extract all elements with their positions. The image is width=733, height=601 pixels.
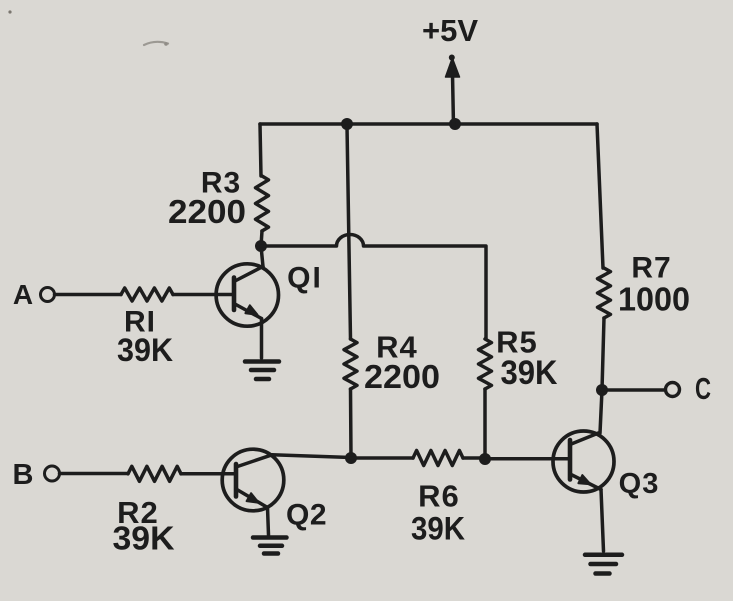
resistor R2	[128, 466, 181, 481]
wire rail to R7	[597, 124, 603, 268]
Q3 label	[619, 468, 660, 500]
terminal B	[13, 459, 60, 491]
ground Q1	[245, 362, 279, 380]
wire rail to R3	[260, 124, 261, 176]
junction rail / +5V	[449, 118, 461, 130]
svg-text:C: C	[695, 371, 711, 406]
wire Q3 emitter to ground	[601, 490, 604, 552]
svg-text:2200: 2200	[364, 358, 440, 395]
junction bottom node R4	[345, 452, 357, 464]
wire R1 to Q1 base	[173, 293, 233, 297]
wire top supply rail	[260, 122, 597, 126]
R3 value 2200	[168, 193, 246, 230]
wire Q2 emitter to ground	[268, 508, 269, 536]
R7 value 1000	[618, 281, 690, 318]
svg-text:B: B	[13, 459, 34, 491]
junction node Q1 collector	[255, 240, 267, 252]
wire output node to terminal C	[602, 388, 665, 392]
wire R5 to bottom node	[483, 389, 487, 459]
R4 label	[376, 330, 418, 365]
transistor Q1	[216, 264, 278, 326]
svg-text:2200: 2200	[168, 193, 246, 230]
svg-text:Q2: Q2	[286, 499, 327, 532]
junction node R5 / Q3 base	[479, 453, 491, 465]
wire B to R2	[60, 472, 129, 476]
junction rail / R4	[341, 118, 353, 130]
junction output node	[596, 384, 608, 396]
wire R7 to output node	[602, 318, 604, 390]
transistor Q3	[553, 431, 614, 492]
wire node to Q3 base	[485, 457, 570, 461]
wire Q3 collector to output node	[599, 390, 603, 433]
ground Q3	[585, 555, 622, 574]
R5 label	[496, 325, 538, 360]
wire R4 from rail	[347, 126, 351, 339]
svg-text:39K: 39K	[411, 511, 465, 547]
transistor Q2	[222, 449, 284, 511]
wire Q2 collector to bottom node	[272, 455, 351, 458]
scan speck artifact	[8, 10, 11, 13]
svg-text:+5V: +5V	[422, 13, 478, 48]
R2 value 39K	[113, 520, 175, 557]
wire bottom node to R6	[351, 456, 413, 460]
wire R2 to Q2 base	[181, 472, 236, 476]
resistor R3	[256, 176, 269, 231]
R2 label	[117, 495, 159, 530]
R7 label	[631, 252, 671, 285]
R5 value 39K	[501, 354, 558, 392]
svg-text:Q3: Q3	[619, 468, 660, 500]
Q2 label	[286, 499, 327, 532]
R6 label	[418, 479, 460, 514]
R6 value 39K	[411, 511, 465, 547]
wire R6 to node	[463, 456, 485, 460]
ground Q2	[253, 538, 287, 554]
terminal A	[13, 279, 55, 310]
scan smudge artifact	[144, 42, 168, 46]
terminal C	[666, 371, 712, 406]
wire R3 to node	[261, 231, 262, 246]
svg-text:39K: 39K	[117, 332, 173, 368]
resistor R1	[121, 288, 173, 301]
svg-text:1000: 1000	[618, 281, 690, 318]
resistor R6	[413, 451, 463, 466]
wire Q1 emitter to ground	[260, 319, 264, 359]
svg-text:39K: 39K	[113, 520, 175, 557]
R1 label	[124, 306, 156, 339]
svg-text:R6: R6	[418, 479, 460, 514]
Q1 label	[287, 262, 323, 295]
R3 label	[201, 167, 241, 200]
wire node to Q1 collector	[261, 246, 263, 267]
wire node to R5 with hop over R4	[261, 235, 486, 340]
R4 value 2200	[364, 358, 440, 395]
svg-text:QI: QI	[287, 262, 323, 295]
wire A to R1	[55, 293, 122, 297]
svg-text:39K: 39K	[501, 354, 558, 392]
wire R4 to bottom node	[349, 389, 353, 458]
resistor R4	[344, 339, 357, 389]
svg-text:A: A	[13, 279, 33, 310]
resistor R7	[598, 268, 611, 318]
power +5V	[422, 13, 478, 126]
resistor R5	[479, 339, 492, 389]
R1 value 39K	[117, 332, 173, 368]
